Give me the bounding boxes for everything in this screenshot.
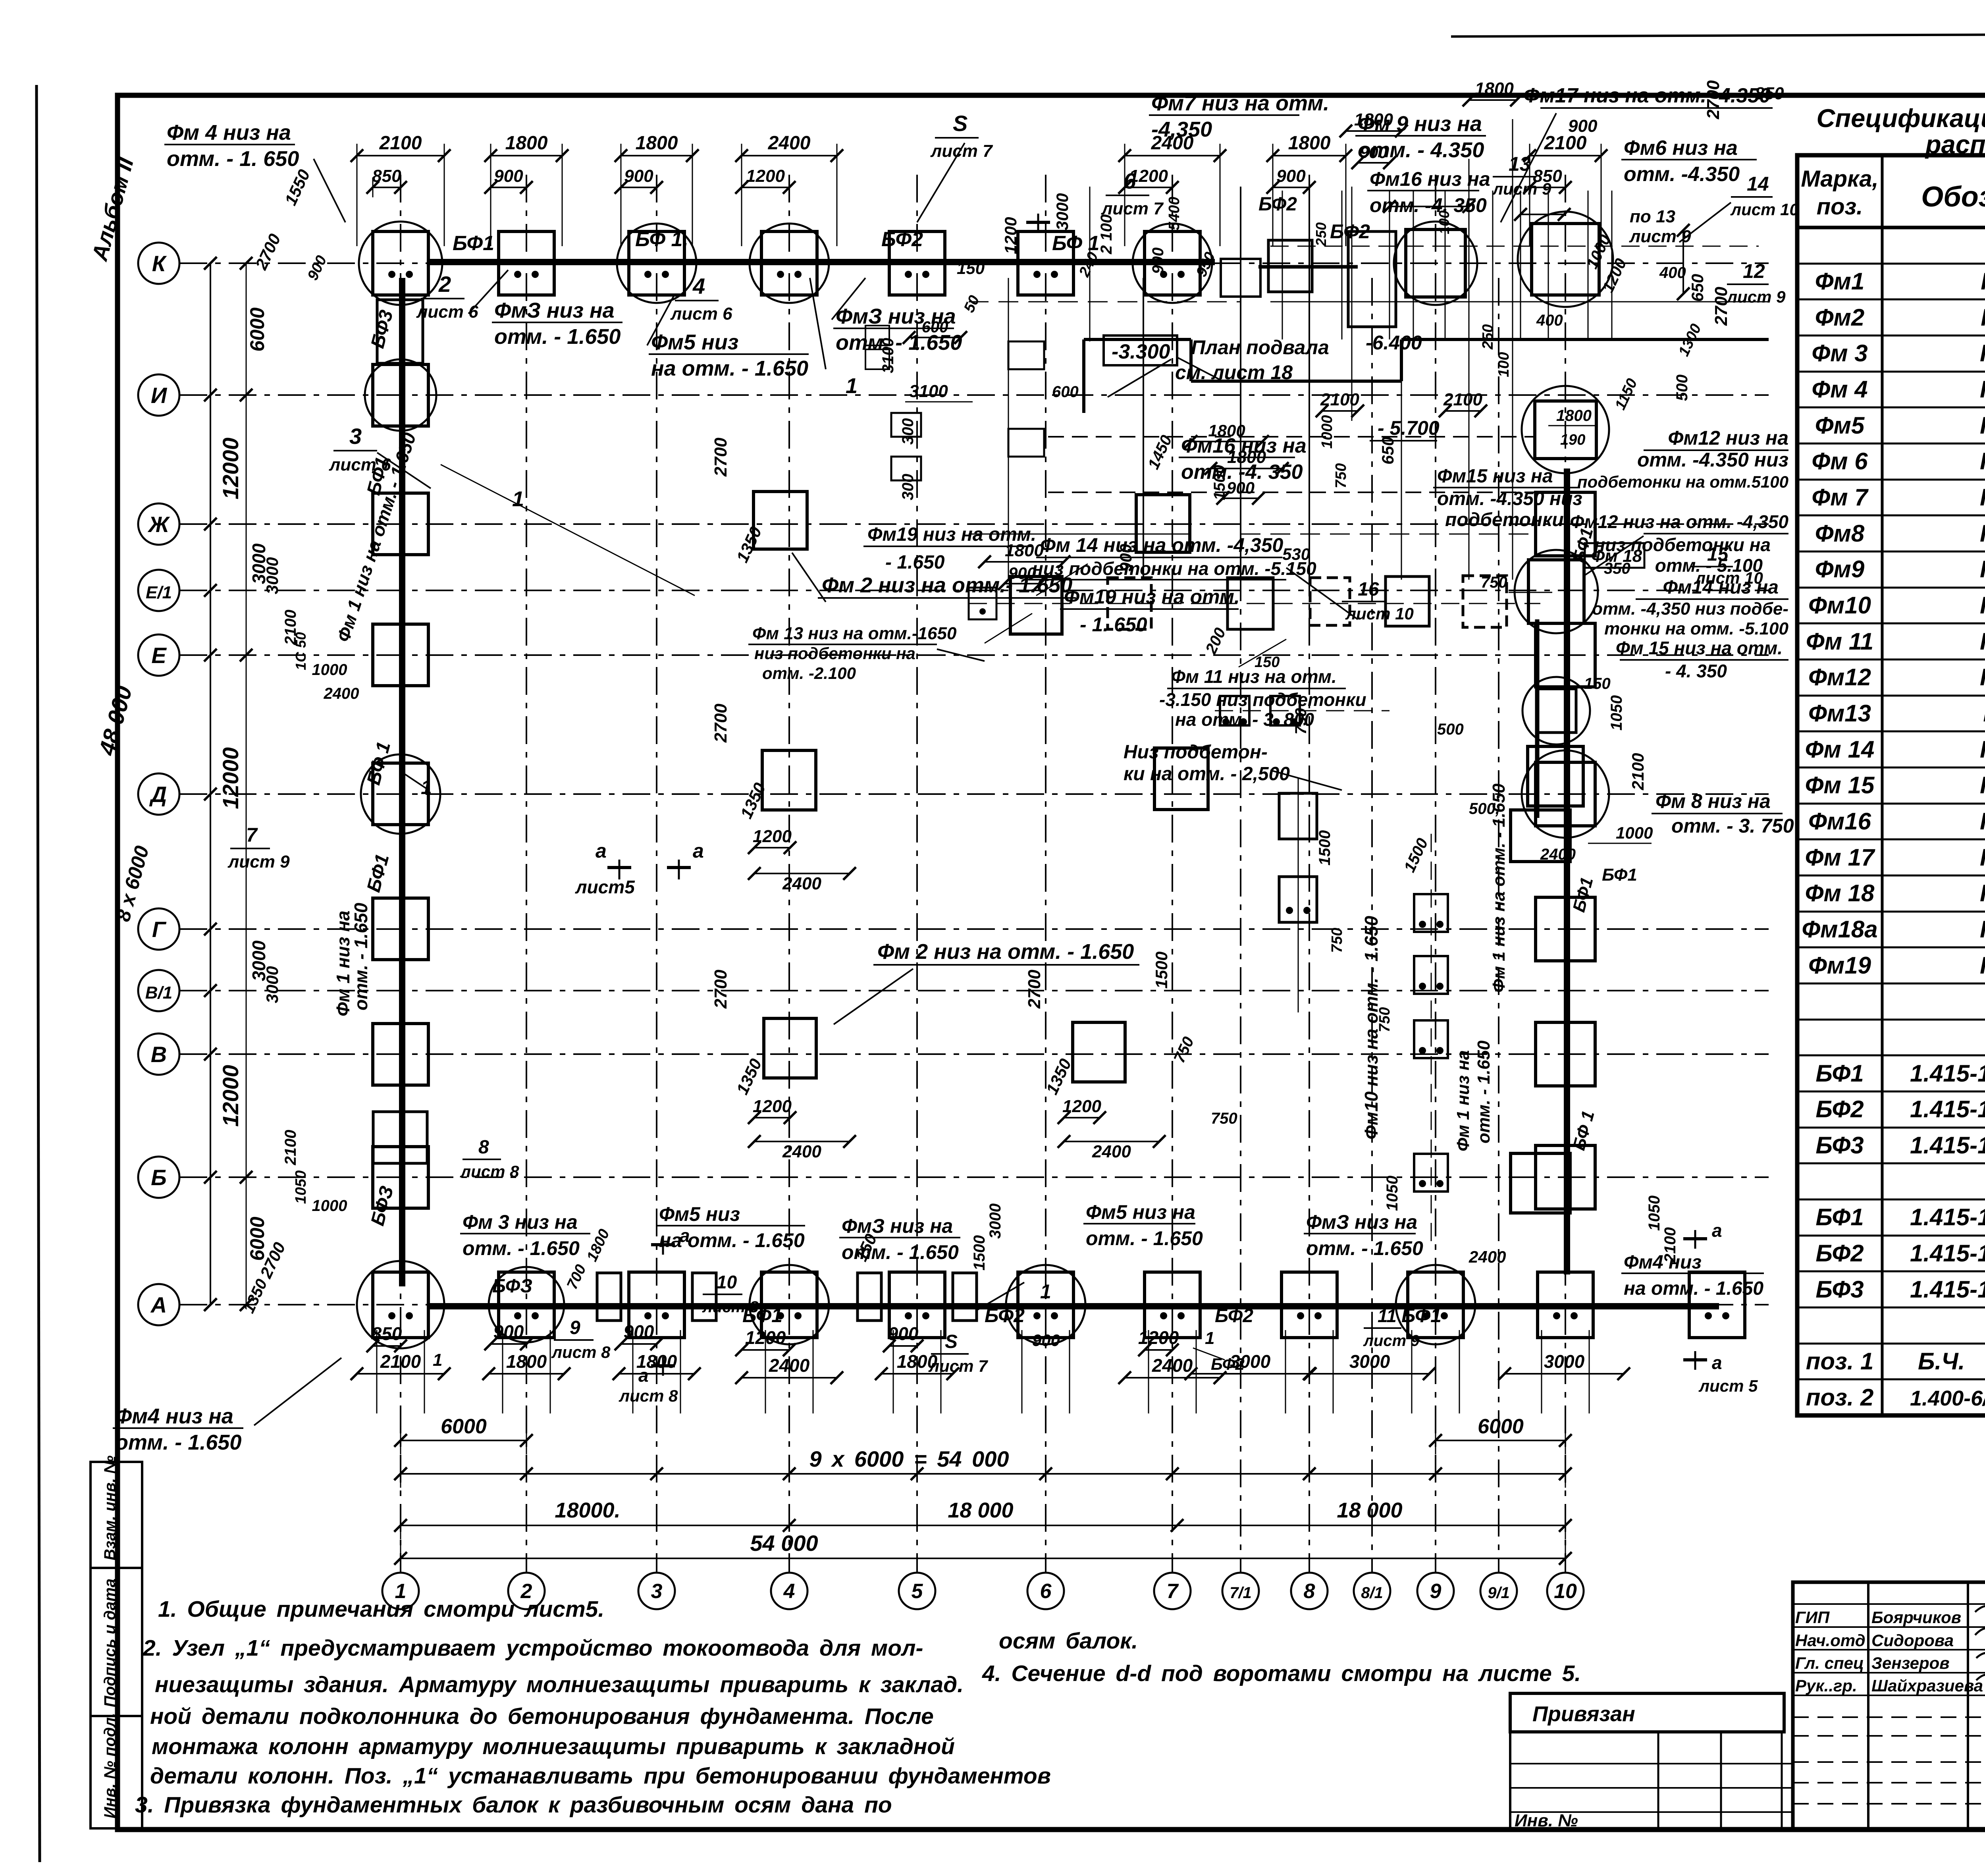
svg-text:10: 10	[717, 1272, 737, 1292]
foundation pad K-9	[1394, 222, 1477, 305]
svg-text:1: 1	[512, 487, 524, 511]
label Fm4 top left	[164, 121, 345, 222]
svg-text:на отм. - 1.650: на отм. - 1.650	[659, 1229, 805, 1251]
section mark a-a right	[1683, 1220, 1758, 1395]
bottom dim chain 54000	[394, 1531, 1572, 1572]
label 1 uzol	[405, 487, 524, 798]
svg-text:отм. - 3. 750: отм. - 3. 750	[1671, 815, 1794, 837]
foundation pad K-1	[359, 222, 442, 305]
svg-text:2700: 2700	[711, 438, 730, 477]
svg-text:а: а	[1712, 1220, 1722, 1241]
axis circle И	[138, 374, 179, 416]
svg-text:Фм 6: Фм 6	[1812, 448, 1868, 474]
svg-text:1: 1	[395, 1580, 407, 1603]
svg-text:ной детали подколонника до: ной детали подколонника до бетонирования…	[150, 1704, 934, 1729]
svg-text:9: 9	[1430, 1580, 1442, 1603]
label Fm7	[1149, 91, 1329, 141]
bottom detail leaders	[433, 1272, 1420, 1375]
bottom dim chain 9x6000	[394, 1446, 1572, 1488]
svg-text:БФЗ: БФЗ	[492, 1276, 532, 1297]
svg-text:900: 900	[1227, 478, 1255, 497]
svg-text:Фм13: Фм13	[1808, 700, 1871, 727]
foundation pad A-1	[357, 1261, 444, 1348]
svg-text:а: а	[595, 840, 607, 862]
svg-text:900: 900	[624, 1321, 654, 1342]
foundation pad A-right end	[1689, 1272, 1745, 1338]
svg-text:отм. - 1.650: отм. - 1.650	[1474, 1040, 1494, 1143]
svg-text:КЖ 17: КЖ 17	[1980, 880, 1985, 906]
svg-text:1: 1	[846, 374, 858, 398]
svg-text:100: 100	[1495, 352, 1512, 377]
label Fm15	[1433, 466, 1582, 530]
svg-text:Рук..гр.: Рук..гр.	[1795, 1676, 1857, 1695]
axis circle 7/1	[1222, 1573, 1259, 1609]
svg-text:Фм15 низ на: Фм15 низ на	[1437, 466, 1553, 487]
svg-text:2700: 2700	[711, 970, 730, 1009]
svg-text:по 13: по 13	[1630, 207, 1675, 226]
interior pad dims В4	[711, 970, 856, 1161]
label Fm12 right	[1577, 427, 1788, 491]
svg-text:ГИП: ГИП	[1795, 1608, 1830, 1627]
foundation pad K-2	[499, 231, 554, 295]
svg-text:300: 300	[899, 418, 917, 445]
svg-text:15: 15	[1707, 544, 1729, 565]
label Fm4 bottom left	[113, 1358, 341, 1454]
svg-text:7/1: 7/1	[1230, 1584, 1252, 1602]
svg-text:750: 750	[1333, 463, 1349, 488]
rotated labels Fm10 Fm1 column	[1361, 916, 1494, 1151]
svg-text:лист 8: лист 8	[702, 1298, 759, 1316]
label Fm15 right	[1616, 638, 1788, 681]
svg-text:лист 9: лист 9	[1726, 287, 1786, 306]
foundation pad K-4	[750, 224, 829, 303]
svg-text:БФ2: БФ2	[1330, 220, 1370, 243]
svg-text:1050: 1050	[1646, 1195, 1663, 1231]
foundation pad A-8	[1282, 1272, 1337, 1338]
foundation pad A-10	[1538, 1272, 1593, 1338]
svg-text:Сидорова: Сидорова	[1871, 1631, 1954, 1650]
svg-text:S: S	[945, 1331, 958, 1352]
svg-text:1000: 1000	[1319, 415, 1336, 449]
svg-text:отм. - 1. 650: отм. - 1. 650	[167, 147, 299, 171]
svg-text:2100: 2100	[1443, 390, 1482, 409]
svg-text:КЖ 15: КЖ 15	[1980, 772, 1985, 798]
svg-text:отм. -4.350 низ: отм. -4.350 низ	[1437, 488, 1582, 509]
beam vertical column1	[399, 278, 405, 1286]
section mark a-a bottom	[619, 1225, 690, 1405]
svg-text:Фм7 низ на отм.: Фм7 низ на отм.	[1151, 91, 1329, 115]
svg-text:Фм17 низ на отм. -4.350: Фм17 низ на отм. -4.350	[1524, 84, 1771, 107]
number axes lines	[401, 175, 1565, 1573]
svg-text:БФ1: БФ1	[1815, 1060, 1864, 1087]
svg-text:750: 750	[1211, 1110, 1237, 1127]
pad cluster row	[1010, 576, 1507, 634]
svg-text:БФ2: БФ2	[1258, 194, 1297, 215]
svg-text:530: 530	[1282, 545, 1310, 563]
svg-text:КЖ 11: КЖ 11	[1981, 304, 1985, 331]
svg-text:1050: 1050	[293, 1170, 309, 1204]
sheet edge left	[37, 85, 40, 1862]
svg-text:2700: 2700	[711, 704, 730, 743]
svg-text:на отм. - 1.650: на отм. - 1.650	[1624, 1278, 1763, 1299]
axis circle Е	[138, 634, 179, 676]
svg-text:Фм9: Фм9	[1815, 556, 1865, 582]
svg-text:отм. - 4.350: отм. - 4.350	[1358, 138, 1484, 162]
privyazan sub table	[1510, 1732, 1793, 1830]
title block signatures text	[1795, 1601, 1985, 1695]
beam along A	[427, 1303, 1719, 1309]
svg-text:2400: 2400	[324, 685, 359, 702]
svg-text:750: 750	[1481, 574, 1507, 591]
small rect marks left of cluster	[865, 326, 996, 619]
axis circle 8	[1291, 1573, 1328, 1609]
svg-text:900: 900	[1116, 544, 1135, 572]
svg-text:650: 650	[1688, 274, 1707, 302]
svg-text:БФ 1.: БФ 1.	[635, 228, 688, 251]
svg-text:отм. -4.350: отм. -4.350	[1624, 163, 1740, 186]
svg-text:лист 9: лист 9	[1363, 1332, 1420, 1350]
svg-text:Фм 11 низ на отм.: Фм 11 низ на отм.	[1171, 666, 1337, 687]
svg-text:План подвала: План подвала	[1191, 336, 1329, 359]
svg-text:900: 900	[1568, 116, 1598, 136]
svg-text:3100: 3100	[909, 382, 948, 401]
svg-text:А: А	[150, 1292, 167, 1317]
label Fm3 K row 2	[832, 278, 962, 355]
small squares top mid	[891, 341, 1044, 480]
svg-text:отм. - 1.650: отм. - 1.650	[1086, 1227, 1203, 1249]
foundation pad 1-Е	[373, 624, 428, 686]
foundation pad A-2	[489, 1267, 564, 1342]
svg-text:1.415-1: 1.415-1	[1910, 1132, 1985, 1159]
svg-text:1200: 1200	[1062, 1097, 1101, 1116]
svg-text:БФ1: БФ1	[1815, 1204, 1864, 1230]
axis circle К	[138, 243, 179, 284]
svg-text:Низ подбетон-: Низ подбетон-	[1124, 742, 1268, 763]
svg-text:900: 900	[888, 1323, 919, 1344]
svg-text:подбетонки: подбетонки	[1445, 509, 1564, 530]
svg-text:КЖ 12: КЖ 12	[1980, 448, 1985, 474]
svg-text:3000: 3000	[987, 1203, 1004, 1239]
svg-text:Фм12 низ на: Фм12 низ на	[1668, 427, 1788, 449]
svg-text:400: 400	[1659, 264, 1686, 281]
svg-text:- 5.700: - 5.700	[1378, 417, 1440, 439]
svg-text:ФмЗ низ на: ФмЗ низ на	[1306, 1211, 1417, 1233]
svg-text:Фм 18: Фм 18	[1805, 880, 1875, 906]
svg-text:а: а	[693, 840, 704, 862]
foundation pad 10-Г	[1536, 897, 1595, 961]
svg-text:350: 350	[1604, 560, 1630, 577]
svg-text:1: 1	[1040, 1280, 1051, 1303]
svg-text:Фм 2 низ на отм. - 1.650: Фм 2 низ на отм. - 1.650	[877, 940, 1134, 964]
svg-text:3: 3	[651, 1580, 663, 1603]
svg-text:1200: 1200	[745, 1327, 786, 1348]
svg-text:1200: 1200	[753, 1097, 792, 1116]
svg-text:1800: 1800	[505, 133, 548, 154]
svg-text:12000: 12000	[218, 1065, 243, 1127]
right side dims	[1673, 84, 1784, 401]
foundation pad K-7/1 small	[1221, 259, 1260, 297]
bottom dim chain 6000 left	[394, 1415, 533, 1454]
svg-text:18 000: 18 000	[948, 1498, 1013, 1522]
svg-text:900: 900	[1149, 247, 1167, 274]
svg-text:Фм 3: Фм 3	[1812, 340, 1867, 366]
svg-text:12000: 12000	[218, 438, 243, 499]
svg-text:отм. - 1.650: отм. - 1.650	[115, 1431, 241, 1454]
svg-text:Ж: Ж	[147, 512, 170, 537]
svg-text:БФ2: БФ2	[881, 228, 923, 251]
svg-text:БФ3: БФ3	[1815, 1132, 1864, 1159]
svg-text:2400: 2400	[768, 133, 811, 154]
BF labels on A beam	[492, 1276, 1442, 1327]
pad interior 4-Д	[762, 750, 816, 810]
svg-text:Фм 14: Фм 14	[1805, 736, 1875, 763]
axis circle 1	[382, 1573, 419, 1609]
svg-text:Фм18а: Фм18а	[1802, 916, 1877, 943]
svg-text:6000: 6000	[246, 307, 268, 351]
svg-text:Фм5 низ: Фм5 низ	[659, 1203, 740, 1225]
foundation pad 1-Г	[373, 898, 428, 960]
svg-text:2100: 2100	[1628, 753, 1647, 791]
foundation pad A-5	[889, 1272, 945, 1338]
svg-text:монтажа колонн арматуру мол: монтажа колонн арматуру молниезащиты при…	[152, 1734, 955, 1759]
svg-text:лист 9: лист 9	[1492, 179, 1551, 198]
pad flank A-5	[858, 1273, 977, 1321]
foundation pad A-7	[1145, 1272, 1200, 1338]
foundation pad 10-Б	[1536, 1145, 1595, 1209]
svg-text:1200: 1200	[1001, 217, 1020, 254]
svg-text:Марка,: Марка,	[1801, 166, 1878, 192]
label Fm9 Fm16	[1355, 112, 1490, 216]
svg-text:БФ1: БФ1	[453, 232, 494, 255]
svg-text:18 000: 18 000	[1337, 1498, 1402, 1522]
label 5 list 7	[917, 111, 993, 222]
pad 10 stacked	[1528, 675, 1653, 885]
svg-text:2 100: 2 100	[1098, 214, 1115, 255]
label 14 list 10	[1679, 173, 1799, 242]
label Fm14 right	[1592, 577, 1788, 638]
svg-text:2: 2	[438, 272, 451, 297]
axis circle 6	[1027, 1573, 1064, 1609]
general notes	[135, 1596, 1581, 1818]
svg-text:12000: 12000	[218, 747, 243, 809]
svg-text:1050: 1050	[1608, 695, 1625, 731]
svg-text:Взам. инв. №: Взам. инв. №	[101, 1456, 119, 1560]
svg-text:КЖ 14: КЖ 14	[1980, 592, 1985, 619]
spec table title	[1816, 104, 1985, 159]
beam BF1 along K	[427, 259, 1215, 265]
axis circle В	[138, 1033, 179, 1075]
svg-text:150: 150	[957, 259, 985, 278]
foundation pad 1-Д	[361, 754, 440, 834]
foundation pad K-5	[889, 231, 945, 295]
svg-text:100: 100	[1436, 210, 1452, 234]
pad small pair	[1220, 696, 1300, 725]
svg-text:лист 10: лист 10	[1345, 604, 1414, 623]
interior pad dims Д4	[711, 704, 856, 893]
label Fm5 K row	[647, 294, 809, 380]
axis circle 9	[1417, 1573, 1454, 1609]
label Fm3 K row	[468, 270, 622, 349]
label 1800-900 mid	[1204, 447, 1289, 505]
axis circle Б	[138, 1157, 179, 1198]
label Fm16 lower	[1179, 434, 1307, 484]
svg-text:2400: 2400	[1469, 1247, 1506, 1266]
svg-text:-4,350: -4,350	[1151, 118, 1212, 141]
svg-text:низ подбетонки на: низ подбетонки на	[754, 644, 915, 663]
margin label Album II	[87, 154, 138, 264]
svg-text:Фм10: Фм10	[1808, 592, 1871, 619]
svg-text:КЖ 17: КЖ 17	[1980, 844, 1985, 871]
svg-text:Г: Г	[152, 917, 167, 942]
svg-text:6: 6	[1124, 168, 1136, 193]
dims basement right	[1463, 79, 1641, 448]
svg-text:Фм5 низ на: Фм5 низ на	[1086, 1201, 1195, 1223]
svg-text:Фм16: Фм16	[1808, 808, 1871, 835]
svg-text:КЖ 17: КЖ 17	[1980, 952, 1985, 979]
svg-text:КЖ 16: КЖ 16	[1980, 340, 1985, 366]
svg-text:500: 500	[1437, 721, 1464, 738]
axis circle 7	[1154, 1573, 1191, 1609]
svg-text:В/1: В/1	[145, 983, 172, 1003]
svg-text:лист 5: лист 5	[1698, 1377, 1758, 1395]
svg-text:5400: 5400	[1166, 197, 1183, 230]
foundation pad A-6	[1006, 1265, 1085, 1344]
svg-text:осям балок.: осям балок.	[999, 1628, 1138, 1654]
svg-text:КЖ 15: КЖ 15	[1980, 736, 1985, 763]
svg-text:К: К	[152, 251, 167, 276]
svg-text:ФмЗ низ на: ФмЗ низ на	[494, 299, 615, 322]
left local dims	[240, 167, 359, 1316]
svg-text:S: S	[953, 111, 967, 136]
svg-text:отм. - 1.650: отм. - 1.650	[494, 325, 621, 349]
svg-text:190: 190	[1560, 432, 1585, 448]
A row dims	[351, 1321, 1630, 1384]
svg-text:КЖ 12: КЖ 12	[1980, 376, 1985, 403]
label po13 list9	[1629, 207, 1691, 246]
spec table header text	[1801, 166, 1985, 220]
label 12 list 9	[1726, 260, 1786, 306]
bottom leader labels	[460, 1201, 1764, 1299]
svg-text:Инв. №: Инв. №	[1515, 1811, 1578, 1830]
svg-text:КЖ 13: КЖ 13	[1980, 484, 1985, 511]
svg-text:1200: 1200	[746, 166, 785, 186]
foundation pad K-3	[617, 224, 696, 303]
svg-text:Гл. спец: Гл. спец	[1795, 1654, 1864, 1672]
svg-text:18000.: 18000.	[555, 1498, 620, 1522]
pad 9/1 lowest	[1511, 1153, 1570, 1213]
svg-text:1050: 1050	[1384, 1176, 1401, 1211]
helper verticals basement	[1008, 119, 1513, 580]
svg-text:3000: 3000	[1349, 1351, 1390, 1372]
title block frame	[1793, 1582, 1985, 1830]
svg-text:1: 1	[421, 776, 432, 798]
svg-text:В: В	[151, 1042, 167, 1067]
svg-text:Боярчиков: Боярчиков	[1871, 1608, 1961, 1627]
svg-text:8: 8	[478, 1137, 489, 1158]
top right extra density	[1270, 191, 1769, 359]
svg-text:2400: 2400	[1540, 846, 1576, 863]
svg-text:1800: 1800	[636, 133, 678, 154]
top extension lines	[357, 156, 1601, 246]
svg-text:9: 9	[570, 1317, 580, 1338]
extra basement dims	[1052, 383, 1349, 500]
top dims row1	[351, 133, 1607, 168]
label 13 list 9	[1492, 153, 1551, 198]
pad 9/1 lower	[1511, 810, 1570, 862]
svg-text:- 1.650: - 1.650	[885, 552, 945, 573]
svg-text:отм. -4.350 низ: отм. -4.350 низ	[1637, 449, 1788, 471]
svg-text:лист 9: лист 9	[227, 852, 290, 871]
svg-text:- 1. 650: - 1. 650	[1080, 613, 1147, 636]
section mark a-a	[575, 840, 704, 897]
svg-text:1500: 1500	[971, 1235, 988, 1271]
svg-text:4: 4	[692, 274, 705, 299]
label 4 list 6	[670, 274, 732, 324]
foundation pad A-9	[1396, 1265, 1475, 1344]
svg-text:Е/1: Е/1	[146, 583, 172, 602]
pad column 9 small chain	[1414, 894, 1448, 1192]
svg-text:400: 400	[1536, 312, 1563, 329]
svg-text:500: 500	[1673, 374, 1691, 401]
svg-text:КЖ 17: КЖ 17	[1980, 808, 1985, 835]
foundation pad 1-Б	[373, 1147, 428, 1208]
section mark d-d top	[1026, 214, 1050, 232]
svg-text:отм. - 1.650: отм. - 1.650	[463, 1237, 580, 1259]
svg-text:1800: 1800	[1475, 79, 1514, 98]
svg-text:отм. - 1.650: отм. - 1.650	[1306, 1237, 1423, 1259]
interior pad dims В6	[1025, 970, 1166, 1161]
svg-text:1500: 1500	[1152, 952, 1171, 989]
svg-text:3000: 3000	[1053, 193, 1072, 230]
interior dims cluster	[978, 421, 1500, 1211]
svg-text:лист 8: лист 8	[551, 1343, 611, 1361]
svg-text:2400: 2400	[1092, 1142, 1131, 1161]
svg-text:Подпись и дата: Подпись и дата	[101, 1579, 119, 1707]
svg-text:9/1: 9/1	[1488, 1584, 1510, 1602]
svg-text:12: 12	[1743, 260, 1765, 282]
svg-text:9 х 6000 = 54 000: 9 х 6000 = 54 000	[809, 1446, 1009, 1471]
svg-text:Фм19 низ на отм.: Фм19 низ на отм.	[1064, 586, 1240, 608]
svg-text:см. лист 18: см. лист 18	[1175, 361, 1293, 384]
svg-text:лист 6: лист 6	[670, 304, 732, 324]
svg-text:4: 4	[783, 1580, 795, 1603]
label 3 list 6	[329, 424, 431, 488]
svg-text:Фм 7: Фм 7	[1812, 484, 1869, 511]
label Fm6	[1621, 137, 1757, 186]
foundation pad 10-И	[1522, 386, 1609, 473]
svg-text:лист5: лист5	[575, 877, 635, 897]
svg-text:КЖ 13: КЖ 13	[1980, 664, 1985, 690]
svg-text:3: 3	[349, 424, 362, 449]
svg-text:150: 150	[1584, 675, 1611, 692]
svg-text:3000: 3000	[263, 557, 281, 594]
svg-text:Фм 15 низ на отм.: Фм 15 низ на отм.	[1616, 638, 1783, 658]
svg-text:1800: 1800	[1227, 447, 1266, 467]
BF labels on K beam	[453, 194, 1370, 255]
left dim chain letters	[204, 257, 269, 1311]
svg-text:Фм 4 низ на: Фм 4 низ на	[167, 121, 291, 145]
foundation pad K-7	[1133, 224, 1212, 303]
pad tall 1-Б	[373, 1112, 427, 1163]
svg-text:поз.: поз.	[1817, 194, 1863, 220]
svg-text:БФ1: БФ1	[1602, 865, 1637, 885]
axis circle 3	[638, 1573, 675, 1609]
svg-text:7: 7	[1167, 1580, 1179, 1603]
svg-text:14: 14	[1747, 173, 1769, 195]
svg-text:Фм 1 низ на: Фм 1 низ на	[1453, 1050, 1473, 1151]
margin box Vzam inv no	[91, 1456, 142, 1568]
label 2 list 6	[416, 272, 478, 322]
